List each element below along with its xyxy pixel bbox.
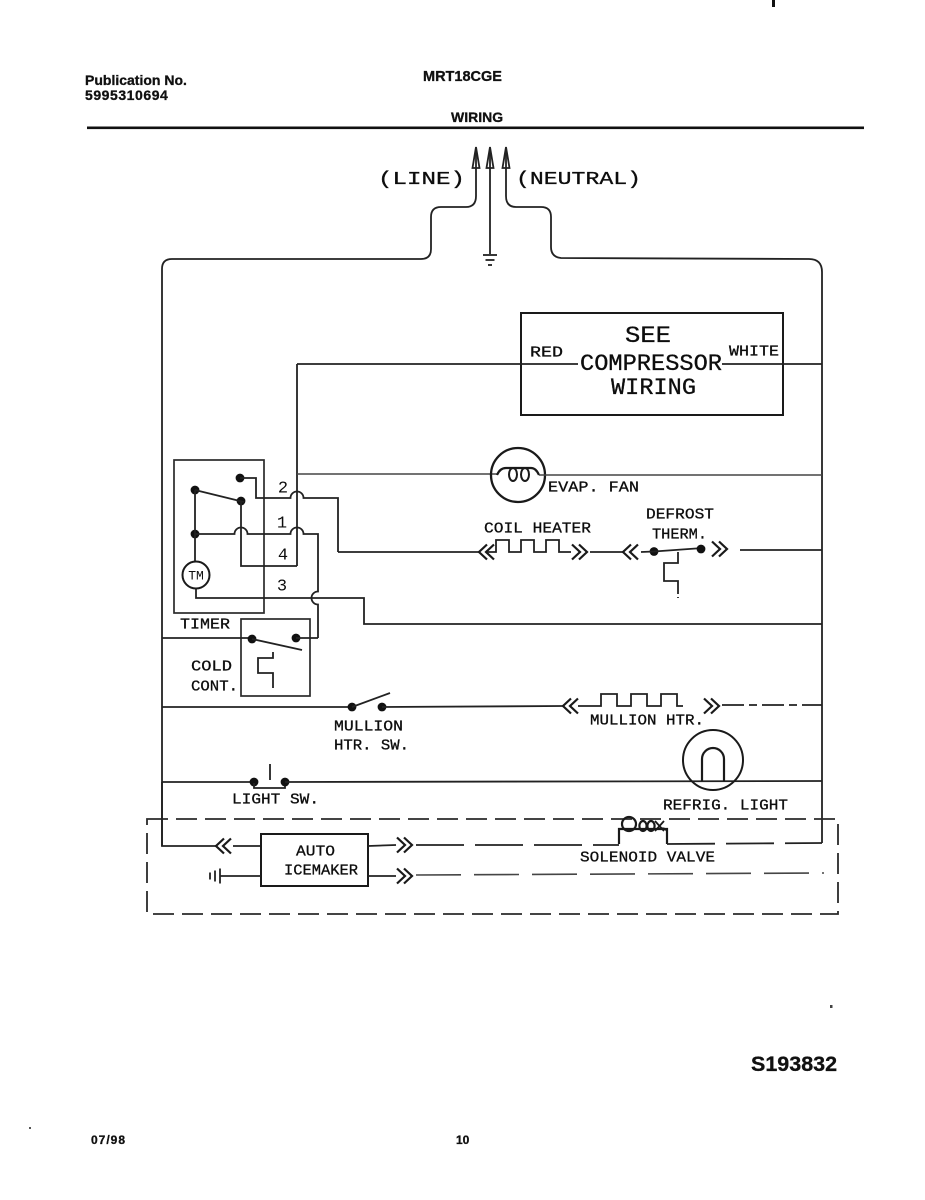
- svg-text:MULLION: MULLION: [334, 719, 403, 736]
- svg-text:COMPRESSOR: COMPRESSOR: [580, 351, 722, 377]
- wire between coil heater and defrost thermostat: [590, 551, 624, 553]
- connector chevrons << (coil heater left): [479, 545, 494, 560]
- connector chevrons >> (defrost right): [712, 542, 727, 557]
- timer switch arm: [195, 490, 244, 502]
- light switch right dot: [281, 778, 290, 787]
- wire timer row 1 to cold control: [195, 528, 318, 639]
- svg-text:LIGHT SW.: LIGHT SW.: [232, 792, 319, 809]
- timer box: [174, 460, 264, 613]
- defrost thermostat capillary: [664, 552, 678, 590]
- wire timer contact 4 jumper (row 4): [241, 501, 297, 566]
- auto icemaker box: [261, 834, 368, 886]
- ground symbol under plug: [483, 255, 497, 265]
- svg-text:COIL HEATER: COIL HEATER: [484, 521, 591, 538]
- svg-text:AUTO: AUTO: [296, 844, 335, 861]
- svg-text:(NEUTRAL): (NEUTRAL): [516, 170, 641, 190]
- connector chevrons >> (mullion heater right): [704, 699, 719, 714]
- plug prong right (neutral): [503, 147, 510, 168]
- speckle dot bottom left: [29, 1127, 31, 1129]
- header horizontal rule: [87, 127, 864, 130]
- solenoid valve coil: [619, 817, 667, 844]
- wire icemaker output row 2: [368, 875, 396, 877]
- svg-text:DEFROST: DEFROST: [646, 507, 714, 524]
- svg-text:SOLENOID VALVE: SOLENOID VALVE: [580, 850, 715, 867]
- connector chevrons >> (icemaker out top): [397, 838, 412, 853]
- svg-text:CONT.: CONT.: [191, 679, 238, 696]
- connector chevrons << (defrost left): [623, 545, 638, 560]
- wire coil heater row lead-in: [338, 551, 480, 553]
- defrost thermostat right dot: [697, 545, 706, 554]
- svg-text:EVAP. FAN: EVAP. FAN: [548, 480, 639, 497]
- coil heater element: [487, 540, 571, 552]
- svg-text:ICEMAKER: ICEMAKER: [284, 863, 358, 880]
- svg-text:(LINE): (LINE): [378, 170, 465, 190]
- svg-text:TIMER: TIMER: [180, 617, 230, 634]
- wire line bus to mullion heater switch: [162, 706, 352, 708]
- svg-text:HTR. SW.: HTR. SW.: [334, 738, 409, 755]
- svg-text:WHITE: WHITE: [729, 344, 779, 361]
- cold control right dot: [292, 634, 301, 643]
- wire dashed solenoid to bus: [667, 843, 822, 844]
- svg-text:MRT18CGE: MRT18CGE: [423, 69, 502, 85]
- compressor box: [521, 313, 783, 415]
- cold control box: [241, 619, 310, 696]
- wire timer motor to row 3: [196, 589, 822, 625]
- light switch left dot: [250, 778, 259, 787]
- svg-text:SEE: SEE: [625, 323, 671, 349]
- svg-text:WIRING: WIRING: [451, 109, 503, 125]
- svg-text:4: 4: [278, 547, 288, 566]
- speckle dot above part number: [830, 1005, 833, 1008]
- wire dashed icemaker row2 right: [416, 873, 824, 875]
- svg-text:WIRING: WIRING: [611, 375, 696, 401]
- wire: line prong down-curve into enclosure top left edge: [162, 196, 476, 846]
- wire mullion heater to neutral bus (dash-dot): [722, 704, 822, 706]
- svg-text:3: 3: [277, 578, 287, 597]
- svg-text:THERM.: THERM.: [652, 527, 707, 544]
- wire icemaker output row 1: [368, 845, 396, 846]
- wire mullion switch to heater: [382, 706, 563, 707]
- wire line bus to light switch: [162, 781, 254, 783]
- timer contact dot lower left: [191, 530, 200, 539]
- wire defrost to neutral bus: [740, 549, 822, 551]
- timer motor TM circle: [183, 562, 210, 589]
- mullion heater switch right dot: [378, 703, 387, 712]
- refrigerator light bulb circle: [683, 730, 743, 790]
- timer contact 2 dot: [236, 474, 245, 483]
- wire evap fan row right to neutral bus: [539, 474, 822, 476]
- svg-text:5995310694: 5995310694: [85, 87, 168, 103]
- svg-text:07/98: 07/98: [91, 1133, 126, 1147]
- evap fan motor circle: [491, 448, 545, 502]
- defrost thermostat arm: [641, 548, 703, 552]
- wire red lead into compressor box: [297, 363, 578, 365]
- icemaker dashed enclosure box: [147, 819, 838, 914]
- connector chevrons >> (coil heater right): [572, 545, 587, 560]
- cold control capillary: [258, 652, 273, 688]
- evap fan coil windings: [497, 468, 539, 475]
- plug prong left (line): [473, 147, 480, 168]
- wire red vertical bus: [296, 364, 298, 566]
- mullion heater element: [578, 694, 683, 706]
- svg-text:10: 10: [456, 1133, 470, 1147]
- wire line bus to cold control: [162, 637, 252, 639]
- connector chevrons >> (icemaker out bottom): [397, 869, 412, 884]
- svg-text:RED: RED: [530, 345, 563, 362]
- svg-text:S193832: S193832: [751, 1052, 837, 1076]
- connector chevrons << (icemaker input): [216, 839, 231, 854]
- svg-text:MULLION HTR.: MULLION HTR.: [590, 713, 704, 730]
- plug prong middle (ground pin): [487, 147, 494, 168]
- page corner tick mark top right: [772, 0, 775, 7]
- wire evap fan row left: [297, 473, 497, 475]
- cold control left dot: [248, 635, 257, 644]
- wire timer left column: [194, 490, 196, 561]
- svg-text:REFRIG. LIGHT: REFRIG. LIGHT: [663, 798, 788, 815]
- wire dashed icemaker row1 to solenoid: [416, 844, 619, 846]
- timer contact 4 dot middle: [237, 497, 246, 506]
- mullion heater switch left dot: [348, 703, 357, 712]
- svg-text:COLD: COLD: [191, 659, 232, 676]
- mullion heater switch arm: [352, 693, 390, 707]
- wire timer contact 2 to coil heater row (row 2): [240, 478, 338, 552]
- defrost thermostat left dot: [650, 547, 659, 556]
- icemaker ground symbol: [210, 869, 261, 884]
- timer contact common dot upper left: [191, 486, 200, 495]
- light switch plunger: [269, 764, 271, 780]
- wire: neutral prong down-curve into enclosure top right edge: [506, 196, 822, 843]
- connector chevrons << (mullion heater left): [563, 699, 578, 714]
- wire cold control to timer row 1: [296, 637, 318, 639]
- svg-text:Publication No.: Publication No.: [85, 72, 187, 88]
- wire light switch to refrigerator light: [285, 781, 822, 782]
- refrigerator light filament: [702, 748, 724, 781]
- svg-text:TM: TM: [188, 569, 204, 584]
- wire chevron to icemaker box: [233, 845, 261, 847]
- svg-text:1: 1: [277, 515, 287, 534]
- wire white lead from compressor box to neutral bus: [722, 363, 822, 365]
- wire line bus elbow to icemaker: [162, 782, 216, 846]
- cold control arm: [252, 639, 302, 650]
- light switch bracket: [254, 783, 285, 788]
- svg-text:2: 2: [278, 480, 288, 499]
